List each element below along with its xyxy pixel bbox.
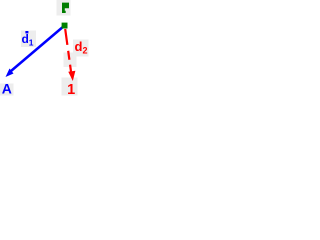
point label r-hat (green glyph): [62, 3, 69, 13]
svg-text:A: A: [2, 81, 12, 97]
accent over d1: [25, 31, 28, 33]
label box for point r (top): [57, 0, 71, 16]
blue vector d1 line: [11, 26, 64, 71]
red vector arrowhead: [68, 71, 75, 81]
red vector d2 dashed line: [65, 29, 71, 72]
svg-text:1: 1: [67, 82, 75, 98]
empty label box on red vector: [64, 53, 77, 68]
green point marker: [62, 23, 68, 29]
label box at tip of red vector: [62, 78, 78, 96]
blue vector arrowhead: [6, 69, 14, 78]
label box for vector d1 (mid of blue vector): [21, 31, 36, 48]
label box for vector d2 (right of red vector): [73, 40, 89, 57]
label box for point A (tip of blue vector): [0, 84, 14, 96]
